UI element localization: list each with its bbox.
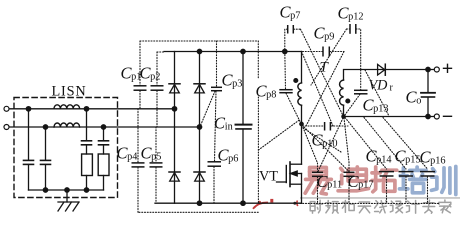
watermark underline xyxy=(300,197,460,199)
capacitor Cp2 stub to rail xyxy=(157,51,164,53)
capacitor Cp17 lead diagonal xyxy=(344,118,349,162)
transformer T primary lead top xyxy=(301,52,303,84)
node dot L pre-inductor xyxy=(26,107,30,111)
wire source to bottom rail xyxy=(301,174,303,204)
capacitor Cin leads xyxy=(242,52,244,125)
dotted ground line bottom-left xyxy=(139,211,259,213)
svg-text:LISN: LISN xyxy=(52,84,87,100)
wire dotted drain hub to Cp17 xyxy=(302,125,349,172)
svg-text:p9: p9 xyxy=(324,31,334,42)
capacitor Cp14 plates xyxy=(379,171,394,173)
capacitor Cp9 leads xyxy=(303,51,323,53)
svg-text:in: in xyxy=(225,121,233,132)
svg-text:p14: p14 xyxy=(376,154,391,165)
svg-text:p12: p12 xyxy=(348,11,363,22)
MOSFET VT source stub xyxy=(290,183,302,185)
capacitor Cp9 plates xyxy=(322,47,324,57)
terminal output minus xyxy=(434,114,439,119)
capacitor Cp1 plates xyxy=(134,85,147,87)
svg-text:p17: p17 xyxy=(358,180,373,191)
capacitor LISN C2 xyxy=(41,159,51,161)
wire AC line L (top) xyxy=(9,108,174,110)
wire dotted gate spur to drain xyxy=(258,120,300,151)
svg-text:VD: VD xyxy=(369,78,389,94)
wire branch1 lower lead xyxy=(28,165,30,190)
ground symbol stem xyxy=(66,190,68,202)
ground symbol xyxy=(58,202,79,211)
node dot N pre-inductor xyxy=(43,125,47,129)
wire dotted diagonal Cp9-right to drain xyxy=(306,52,344,127)
node dot secondary bottom corner xyxy=(342,115,345,118)
capacitor Cp3 plates xyxy=(211,86,222,88)
node dot AC L to bridge xyxy=(172,107,176,111)
capacitor Cin plates xyxy=(236,124,252,126)
terminal line input top xyxy=(4,106,9,111)
wire rectifier top rail xyxy=(164,51,302,53)
node dot N post-inductor xyxy=(101,125,105,129)
node dot rail b3 xyxy=(84,188,88,192)
transformer secondary polarity dot xyxy=(346,99,350,103)
svg-text:p13: p13 xyxy=(373,103,388,114)
wire branch2 upper lead xyxy=(45,127,47,160)
wire dotted gate column lower xyxy=(257,97,259,203)
svg-text:p8: p8 xyxy=(266,89,276,100)
label plus sign xyxy=(444,64,452,72)
svg-text:r: r xyxy=(390,82,394,93)
capacitor Cp8 bottom diagonal xyxy=(286,93,301,122)
MOSFET VT body arrow xyxy=(291,171,298,176)
capacitor Cp11 lead diagonal xyxy=(302,125,318,163)
node dot output plus xyxy=(426,67,430,71)
capacitor Cp8 plates xyxy=(279,89,292,91)
svg-text:VT: VT xyxy=(259,169,278,185)
capacitor Co plates xyxy=(421,92,435,94)
capacitor Cp15 lead diagonal xyxy=(364,118,406,170)
diode D4 (bottom-right) xyxy=(194,172,205,181)
capacitor Cp2 plates xyxy=(151,85,164,87)
wire bridge right leg xyxy=(199,52,201,204)
resistor LISN R2 xyxy=(98,154,109,176)
node dot AC N to bridge xyxy=(197,125,201,129)
svg-text:T: T xyxy=(320,60,330,76)
node dot rail gnd xyxy=(65,188,69,192)
diode D3 (bottom-left) xyxy=(169,172,180,181)
inductor L2 (bottom line) xyxy=(54,123,80,127)
node dot Cin top xyxy=(241,49,245,53)
watermark brand text 易迪拓培训 (pseudo-glyphs) xyxy=(305,167,456,195)
svg-text:p4: p4 xyxy=(127,151,137,162)
wire branch1 upper lead xyxy=(28,109,30,160)
wire dotted sec corner to Cp11 xyxy=(318,118,343,172)
capacitor Cp15 plates xyxy=(399,171,414,173)
capacitor Cp6 leads xyxy=(215,91,217,161)
watermark red logo swirl xyxy=(253,203,268,209)
wire primary to drain xyxy=(301,105,303,164)
wire branch4 mid lead xyxy=(103,145,105,154)
node dot rail b2 xyxy=(43,188,47,192)
wire dotted diagonal rail-end to Cp10 right xyxy=(302,52,334,127)
wire dotted Cp7 to sec corner diagonal xyxy=(301,29,344,115)
capacitor Cp3 leads xyxy=(216,41,218,87)
svg-text:p5: p5 xyxy=(151,151,161,162)
capacitor Cp17 plates xyxy=(344,171,355,173)
svg-text:o: o xyxy=(416,95,421,106)
MOSFET VT gate lead xyxy=(277,181,287,183)
capacitor Cp4 leads xyxy=(137,109,139,163)
svg-text:p16: p16 xyxy=(430,155,445,166)
LISN enclosure dashed box xyxy=(14,98,118,198)
resistor LISN R1 xyxy=(82,154,93,176)
capacitor Cp13 top lead xyxy=(360,70,362,90)
transformer primary polarity dot xyxy=(294,79,298,83)
wire LISN internal ground rail xyxy=(29,189,104,191)
transformer T primary winding xyxy=(298,83,302,106)
wire branch3 mid lead xyxy=(86,145,88,154)
diode D2 (top-right) xyxy=(194,84,205,93)
capacitor Cp11 plates xyxy=(312,171,323,173)
capacitor Cp7 leads xyxy=(285,29,288,51)
capacitor LISN C3 xyxy=(82,140,92,142)
capacitor Cp12 leads xyxy=(347,28,351,30)
wire branch4 upper lead xyxy=(103,127,105,140)
terminal output plus xyxy=(434,67,439,72)
wire dotted diagonal through Cp13 label xyxy=(365,70,389,116)
capacitor Cp8 top lead xyxy=(284,52,287,89)
wire branch4 lower lead xyxy=(103,176,105,191)
svg-text:p3: p3 xyxy=(232,78,242,89)
node dot output minus xyxy=(426,114,430,118)
svg-text:p10: p10 xyxy=(322,138,337,149)
wire rectifier bottom rail xyxy=(155,202,302,204)
capacitor Cp13 plates xyxy=(354,89,368,91)
wire branch2 lower lead xyxy=(45,165,47,190)
MOSFET VT gate bar xyxy=(285,166,287,183)
capacitor Cp4 plates xyxy=(132,162,145,164)
diode D1 (top-left) xyxy=(169,84,180,93)
diode VDr xyxy=(378,64,386,75)
svg-text:p6: p6 xyxy=(228,153,238,164)
capacitor LISN C4 xyxy=(99,140,109,142)
capacitor LISN C1 xyxy=(24,159,34,161)
capacitor Cp2 leads xyxy=(156,52,158,85)
capacitor Cp1 leads xyxy=(139,41,141,85)
wire dotted diagonal Cp12-left down xyxy=(311,29,347,85)
capacitor Cp5 plates xyxy=(150,162,163,164)
inductor L1 (top line) xyxy=(54,105,80,109)
wire bridge left leg xyxy=(174,52,176,204)
svg-text:p15: p15 xyxy=(405,154,420,165)
node dot L post-inductor xyxy=(84,107,88,111)
capacitor Cp13 bottom diagonal xyxy=(345,94,361,115)
svg-text:p11: p11 xyxy=(327,180,342,191)
node dot bridge right bottom xyxy=(197,201,201,205)
wire branch3 lower lead xyxy=(86,176,88,191)
wire branch3 upper lead xyxy=(86,109,88,141)
wire AC line N (bottom) xyxy=(9,126,199,128)
terminal line input bottom xyxy=(4,125,9,130)
capacitor Co leads xyxy=(427,70,429,93)
parasitic capacitor plates (solid) xyxy=(132,24,436,176)
wire dotted diagonal through Cp10 label xyxy=(303,128,341,152)
capacitor Cp10 leads xyxy=(303,125,325,127)
wire dotted gate column upper xyxy=(257,41,259,79)
wire secondary bottom / output minus rail xyxy=(344,105,435,116)
svg-text:p2: p2 xyxy=(150,71,160,82)
MOSFET VT channel bar xyxy=(289,162,291,187)
node dot Cin bottom xyxy=(241,201,245,205)
capacitor Cp5 leads xyxy=(155,127,157,162)
capacitor Cp16 lead diagonal xyxy=(383,118,428,170)
node drain hub xyxy=(300,122,303,125)
MOSFET VT drain bend xyxy=(291,163,302,165)
capacitor Cp16 plates xyxy=(420,171,435,173)
capacitor Cp14 lead diagonal xyxy=(345,118,387,170)
dotted node rail top xyxy=(140,40,258,42)
capacitor Cp7 plates xyxy=(287,25,289,34)
node dot bridge right top xyxy=(197,49,201,53)
capacitor Cp12 plates xyxy=(349,24,351,34)
transformer T secondary winding xyxy=(340,80,344,105)
watermark subtitle 射频和天线设计专家 (pseudo-glyphs) xyxy=(310,200,451,213)
dotted rail extension bottom-right xyxy=(300,202,440,204)
capacitor Cp6 plates xyxy=(208,161,222,163)
wire secondary top xyxy=(344,70,435,81)
label minus sign xyxy=(444,115,452,117)
svg-text:p7: p7 xyxy=(290,10,300,21)
node dot Cp7/Cp8 tap xyxy=(283,49,287,53)
capacitor Cp10 plates xyxy=(324,122,326,131)
